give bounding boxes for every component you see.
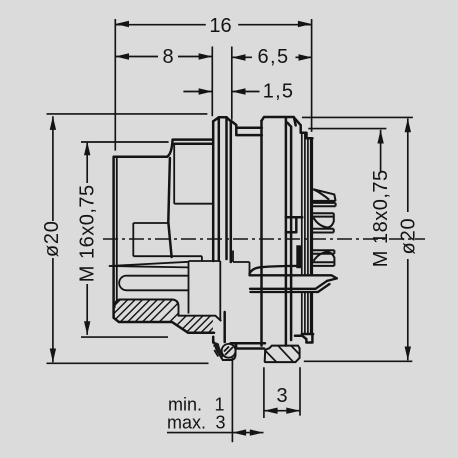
svg-text:6,5: 6,5 (257, 46, 289, 68)
M16 arrows (84, 142, 90, 156)
svg-text:1,5: 1,5 (263, 81, 294, 103)
front barrel silhouette (114, 157, 214, 333)
rear plates bottom (302, 333, 313, 336)
keyway insert block (189, 261, 221, 320)
svg-text:ø20: ø20 (398, 218, 420, 255)
center axis dash-dot (103, 238, 425, 240)
8 arrows (115, 53, 129, 59)
centerline (103, 238, 425, 240)
dim 16 line (115, 24, 311, 26)
arrowheads (50, 21, 411, 436)
neck top lines (231, 121, 262, 135)
disc top with chamfers (213, 117, 231, 121)
dim 6,5 line (232, 56, 312, 58)
min/max ext vertical left (231, 358, 233, 443)
dim 3 line (264, 410, 300, 412)
dim 8 line (115, 56, 212, 58)
dia20 right ext lines (302, 117, 413, 361)
collar left profile (168, 158, 171, 257)
block left edge (260, 121, 263, 346)
svg-text:3: 3 (276, 385, 287, 407)
M18 ext line (308, 128, 386, 130)
svg-text:3: 3 (215, 413, 225, 433)
M18 dim line (380, 130, 382, 172)
neck bottom lines (231, 343, 266, 348)
contact blade bar (bold) (250, 266, 337, 292)
svg-text:ø20: ø20 (41, 220, 63, 257)
rear foot hatch (265, 346, 300, 363)
ext verticals for 8/1,5/6,5 (212, 47, 232, 120)
dia20 left ext lines (47, 114, 209, 363)
collar fillet + top (167, 140, 213, 157)
min/max arrows (232, 429, 246, 435)
internal thinner lines (109, 144, 250, 320)
svg-text:1: 1 (214, 395, 224, 415)
disc left edge (interrupted by insert) (212, 121, 215, 342)
lug 1 (312, 189, 336, 206)
M16 dim line (86, 142, 88, 335)
rear window slot (286, 217, 302, 232)
svg-text:16: 16 (209, 15, 231, 37)
dia20 right arrows (405, 119, 411, 133)
key blade (109, 262, 189, 268)
svg-text:M 18x0,75: M 18x0,75 (370, 169, 392, 267)
6,5 arrows (232, 54, 246, 60)
barrel inner face line (116, 157, 118, 302)
lug 3 (312, 250, 334, 266)
1,5 arrows (outside) (199, 88, 213, 94)
svg-text:M 16x0,75: M 16x0,75 (77, 184, 99, 282)
min/max leader + dim (167, 432, 264, 434)
svg-text:min.: min. (168, 395, 202, 415)
16 arrows (115, 21, 129, 27)
rear bottom staircase (295, 334, 312, 343)
dimension texts (41, 15, 420, 407)
pocket dark wedge (213, 342, 223, 359)
collar inner top line (174, 142, 213, 145)
dark gap fill between block and plates (296, 245, 301, 268)
disc inner chamfer lines (219, 117, 227, 260)
rear foot outline (265, 346, 300, 363)
dia20 left dim line (52, 116, 54, 362)
disc right edge (interrupted) (225, 121, 231, 342)
dim 16 ext verticals (115, 19, 311, 151)
M18 arrow (377, 130, 383, 144)
insert edge step (233, 251, 250, 274)
dia20 right dim line (407, 119, 409, 361)
lug 2 (312, 213, 334, 232)
inner step rect (133, 223, 202, 261)
face rect (174, 144, 213, 204)
svg-text:max.: max. (167, 413, 206, 433)
flange band 1+2 outline (115, 300, 222, 322)
block right edge (285, 117, 288, 345)
o-ring pocket (214, 341, 236, 360)
contact slot (127, 276, 189, 291)
o-ring circle (222, 344, 236, 358)
M16 ext lines (81, 142, 169, 337)
contact slot left cap (119, 276, 126, 291)
dia20 left arrows (50, 116, 56, 130)
block inner plate (287, 123, 291, 340)
svg-text:8: 8 (162, 46, 173, 68)
3 arrows (264, 408, 278, 414)
dim 3 ext verticals (264, 367, 300, 418)
dim 1,5 lines (183, 91, 259, 93)
rear block (262, 117, 313, 138)
